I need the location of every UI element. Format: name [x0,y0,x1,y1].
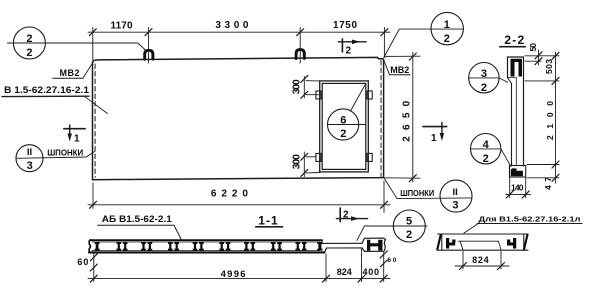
section 2-2 embedded channel (black) [511,59,523,77]
detail 824 dim line [455,265,509,267]
tick 300 top a [301,75,308,82]
right dim line of section 2-2 [555,52,557,183]
svg-text:5: 5 [406,216,412,228]
thin plate bottom line [327,247,363,249]
detail 824 ticks [460,263,467,270]
tick 6220 right [381,201,388,208]
svg-text:МВ2: МВ2 [60,68,80,78]
extension line hook2 [299,28,301,64]
300 top extension a [306,80,320,82]
svg-text:2: 2 [26,33,32,45]
svg-text:300: 300 [292,154,303,169]
extension at head bottom [525,80,559,82]
balloon 6/2 inside opening [328,85,366,141]
tick top dim at 148.5 [145,29,152,36]
300 top dimension line [303,77,305,98]
svg-text:МВ2: МВ2 [390,65,409,75]
section cut mark 1 left: vertical arrow line [69,125,71,138]
svg-text:II: II [27,147,32,158]
section 1-1 bottom chord (thick) [89,251,325,253]
lifting hook left [145,50,153,59]
svg-text:300: 300 [292,79,303,94]
balloon 5/2 [357,210,427,242]
svg-text:В 1.5-62.27.16-2.1: В 1.5-62.27.16-2.1 [4,85,90,96]
section 2-2 right edge [523,57,525,166]
section 2-2 stem inner line [515,78,517,166]
tick 6220 left [90,201,97,208]
extension line panel right corner [383,28,385,58]
lifting hook right [296,50,304,59]
detail left diagonal [460,241,463,250]
svg-text:6: 6 [340,114,346,126]
balloon 3/2 [469,62,508,92]
opening clip bottom-left [316,153,321,161]
tick 2650 bottom [409,175,416,182]
top dimension line [88,31,390,33]
opening clip bottom-right [367,153,372,161]
balloon II/3 right (keys) [385,179,473,212]
detail left block edge [441,234,443,250]
section cut mark 1 right: arrowhead [440,133,444,141]
svg-text:2: 2 [483,153,489,165]
section cut mark 2 bottom: arrow bar [336,218,367,220]
svg-text:2: 2 [343,209,349,220]
extension line panel left corner [92,28,94,61]
balloon 1/2 top-right [384,12,464,57]
detail left block plates (black) [446,238,456,249]
dim 50 ticks [535,52,542,59]
section 2-2 head bottom line [508,77,517,79]
section cut mark 1 left: arrowhead [68,134,72,142]
section cut mark 2 top: vertical stroke [341,39,343,52]
section 2-2 foot outline [510,166,526,178]
section 2-2 head outline [508,57,524,78]
section 1-1 inner top line [92,241,320,243]
svg-text:2: 2 [340,128,346,140]
detail right block edge [523,234,525,250]
extension at 326 [325,254,327,282]
mini dim 60 ticks right [380,251,387,258]
dim 140 extension lines [509,178,511,198]
svg-text:ШПОНКИ: ШПОНКИ [400,188,434,198]
tick top dim at 300.2 [297,29,304,36]
svg-text:60: 60 [387,257,396,264]
svg-text:824: 824 [337,267,352,277]
detail right block plates (black) [507,238,516,249]
dashed hidden line right edge [380,61,382,177]
balloon II/3 left (keys) [16,145,95,172]
detail left break mark [436,234,442,250]
dim 60 left of section 1-1 [93,254,95,282]
extension at 361.5 [361,249,363,282]
svg-text:4996: 4996 [221,269,246,280]
svg-text:1750: 1750 [333,20,357,31]
svg-text:АБ В1.5-62-2.1: АБ В1.5-62-2.1 [102,214,172,224]
section 1-1 inner bottom line [92,250,320,252]
section 1-1 right end step [321,240,323,243]
svg-text:Для В1.5-62.27.16-2.1л: Для В1.5-62.27.16-2.1л [479,214,581,223]
ticks bottom dim [90,275,97,282]
dashed hidden line left edge [94,64,96,177]
extension line right for 6220 [383,181,385,213]
extension at 383.7 [383,253,385,282]
section cut mark 1 left: bar [64,128,85,130]
svg-text:50: 50 [528,43,538,52]
svg-text:2: 2 [481,82,487,94]
opening inner frame [322,83,366,169]
svg-text:2: 2 [444,33,450,45]
svg-text:II: II [453,187,458,198]
300 bottom extension b [306,172,320,174]
svg-text:1-1: 1-1 [258,214,278,228]
bottom dimension line 4996/824/400 [88,278,390,280]
svg-text:2: 2 [406,229,412,241]
tick 300 bottom b [301,169,308,176]
balloon 4/2 [471,134,512,167]
panel outline (plan view) [93,57,384,179]
section cut mark 2 bottom: vertical stroke [339,208,341,222]
extension at foot bottom [527,177,559,179]
extension line hook1 [148,28,150,64]
detail top line [438,233,529,235]
section cut mark 1 right: vertical arrow line [441,122,443,138]
300 bottom extension a [306,156,316,158]
bottom 6220 dimension line [88,204,390,206]
svg-text:3: 3 [27,160,33,172]
dim 50 extension [525,60,541,62]
extension at section top [525,55,559,57]
svg-text:400: 400 [363,267,380,277]
section 2-2 taper below head [508,78,512,84]
svg-text:2: 2 [26,47,32,59]
section cut mark 2 top: arrow bar [338,41,366,43]
svg-text:3: 3 [452,199,458,211]
svg-text:503: 503 [544,59,554,74]
svg-text:2: 2 [346,46,352,57]
tick top dim at 384.4 [381,29,388,36]
svg-text:824: 824 [472,255,489,265]
svg-text:1170: 1170 [111,20,133,31]
2650 dimension line vertical [412,53,414,183]
detail middle shelf line [459,240,499,242]
extension at foot top [527,164,559,166]
detail 824 extensions [462,252,464,270]
section 1-1 top chord (thick) [90,239,322,241]
svg-text:2-2: 2-2 [504,33,524,47]
dim 140 line [506,193,531,195]
tick 140 left [506,191,513,198]
tick 2650 top [409,53,416,60]
detail right break mark [523,234,529,250]
tick 300 bottom a [301,153,308,160]
300 top extension b [306,94,319,96]
section cut mark 2 bottom: arrowhead [351,216,359,221]
extension line left for 6220 [92,183,94,209]
opening clip top-right [367,91,372,99]
section 1-1 left end cap with notch [89,240,90,253]
300 bottom dimension line [303,152,305,177]
dim 50 mini line [538,50,540,65]
tick 300 top b [301,91,308,98]
tick top dim at 92.8 [89,29,96,36]
section 2-2 foot embedded plate (black) [511,168,523,176]
svg-text:1: 1 [431,133,437,144]
right end piece of 1-1 [362,238,386,251]
extension line top for 2650 [385,55,421,57]
ticks on right dim line [552,52,559,59]
detail right diagonal [498,241,501,250]
svg-text:ШПОНКИ: ШПОНКИ [47,147,83,157]
opening outer frame [320,81,369,172]
svg-text:60: 60 [77,257,88,267]
opening clip top-left [316,91,321,99]
svg-text:4: 4 [483,139,490,151]
thin plate top line [322,242,362,244]
balloon 2/2 top-left [7,27,146,59]
section cut mark 1 right: bar [423,126,447,128]
svg-text:1: 1 [74,134,80,145]
section 1-1 ribs [95,242,323,251]
detail bottom line [438,249,529,251]
svg-text:1: 1 [444,19,450,31]
svg-text:140: 140 [511,183,524,193]
section 2-2 stem left edge [511,84,513,166]
extension line bottom for 2650 [385,177,421,179]
section cut mark 2 top: arrowhead [352,40,360,45]
svg-text:3: 3 [481,68,487,80]
tick 140 right [522,191,529,198]
